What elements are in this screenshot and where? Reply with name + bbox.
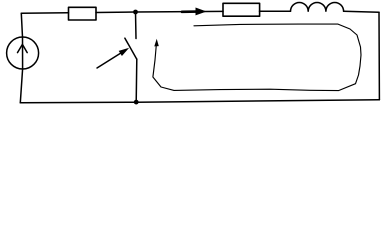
wire inductor to top-right corner [344, 11, 379, 12]
wire R2 to inductor [260, 10, 291, 12]
resistor R2 [223, 3, 260, 16]
node A (top junction dot) [133, 10, 138, 15]
switch actuation arrow [97, 48, 129, 68]
wire bottom [20, 100, 379, 103]
wire top-left to R1 [21, 12, 68, 15]
resistor R1 [69, 7, 97, 20]
current direction arrow i (on top wire) [182, 8, 207, 16]
blade [125, 38, 137, 59]
node B (bottom junction dot) [134, 100, 139, 105]
current source I1 [7, 37, 39, 69]
lower wire [135, 59, 138, 102]
wire junction A to R2 [136, 10, 224, 13]
wire right side [378, 12, 380, 100]
switch S1 [125, 12, 137, 102]
wire R1 to junction A [96, 11, 136, 14]
mesh current loop arrow i2 [153, 24, 361, 91]
top stub [135, 12, 138, 39]
wire left side [20, 13, 22, 103]
inductor L1 [291, 2, 344, 11]
